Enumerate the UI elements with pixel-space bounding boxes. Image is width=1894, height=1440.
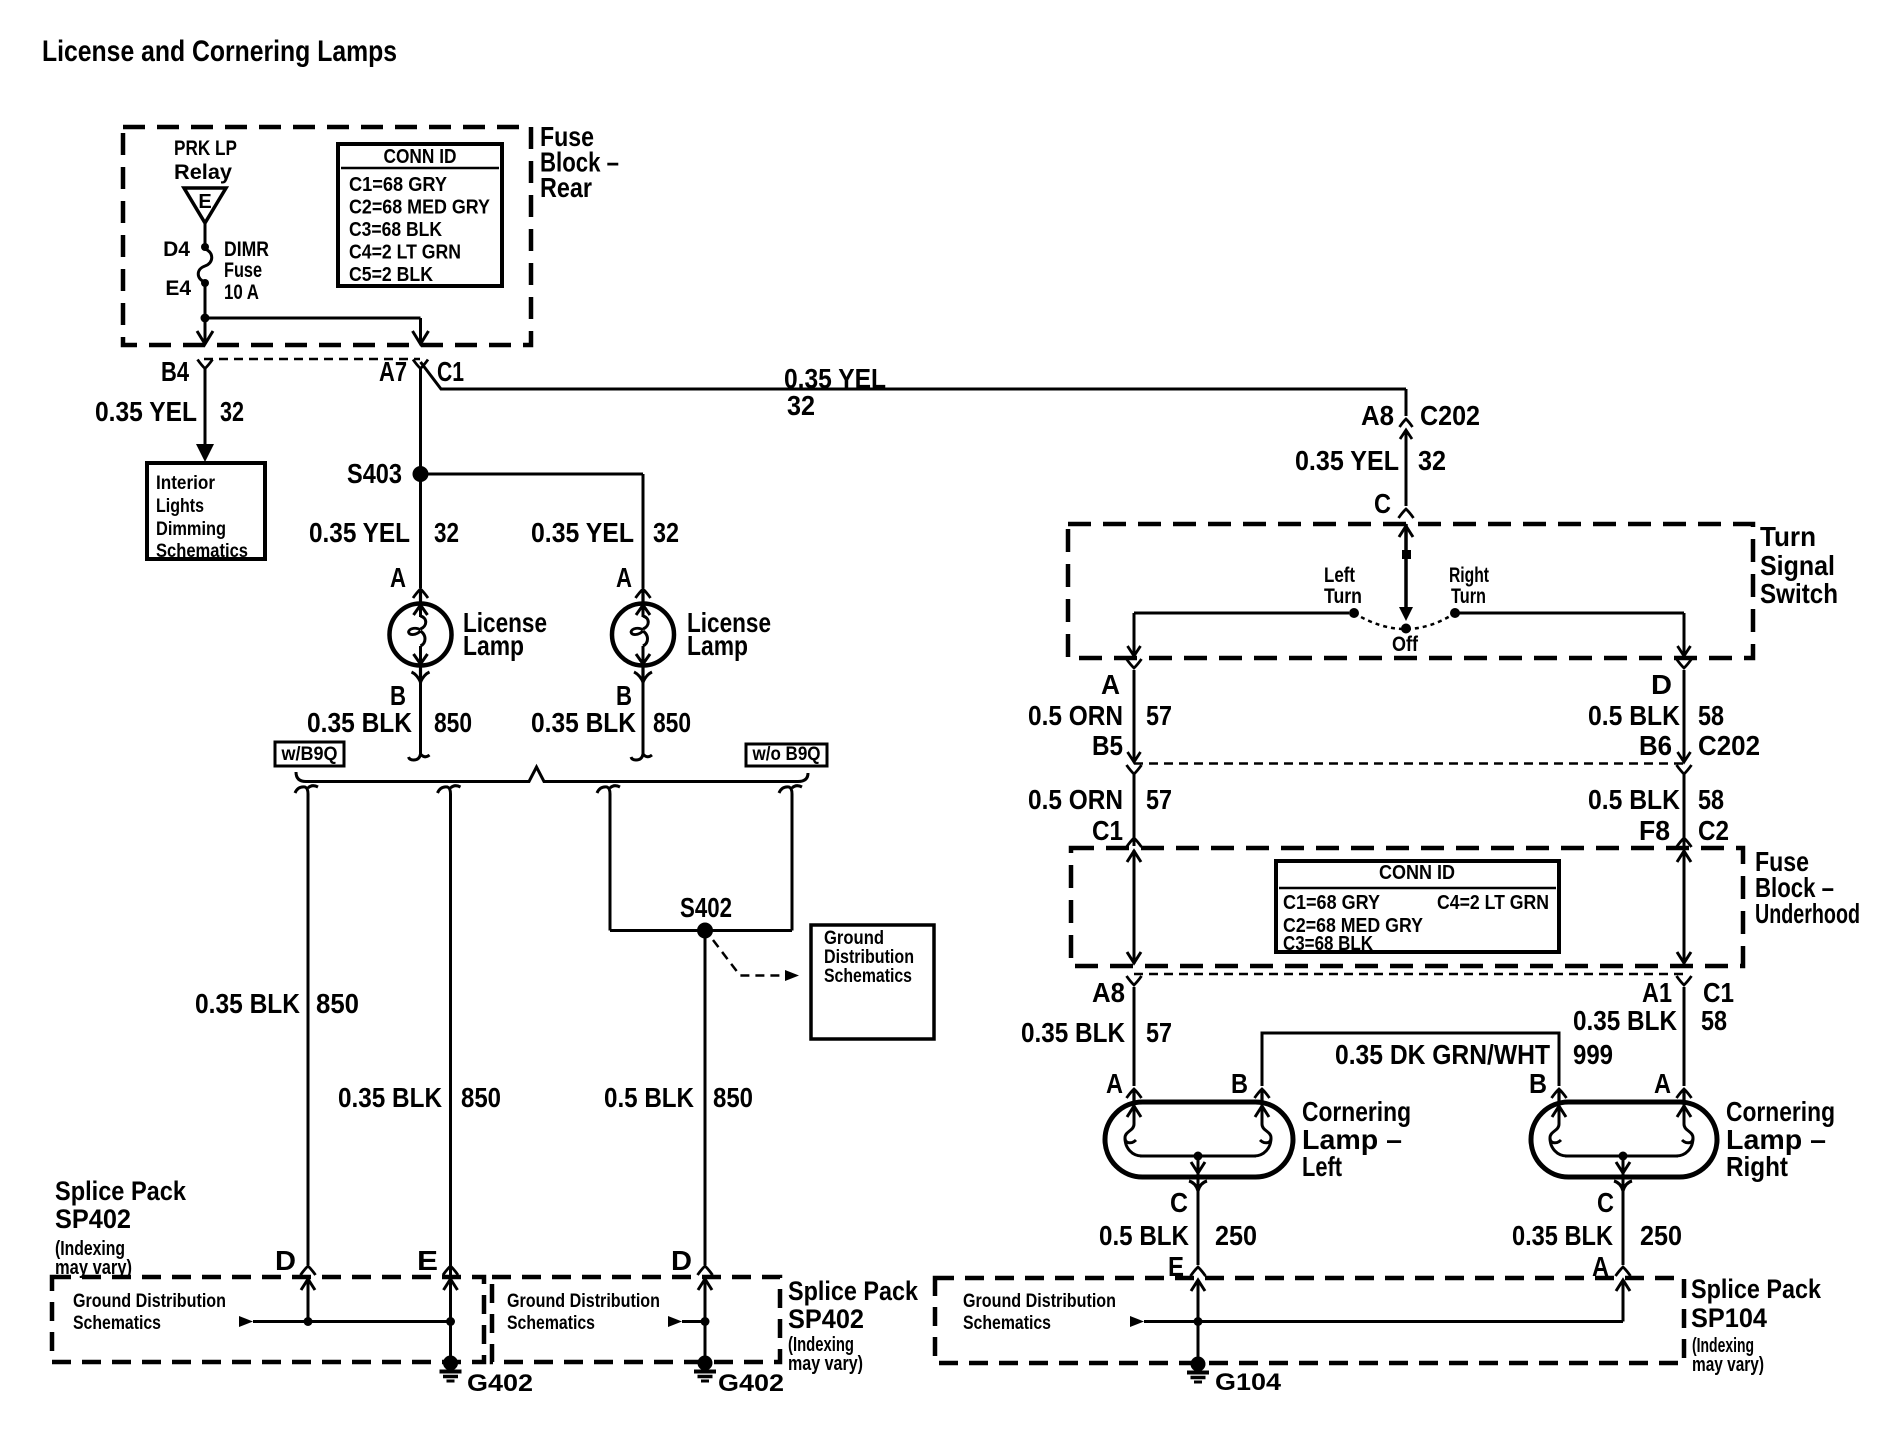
- svg-text:32: 32: [653, 517, 679, 548]
- svg-text:0.35 YEL: 0.35 YEL: [1295, 445, 1399, 476]
- svg-text:E: E: [198, 191, 211, 213]
- svg-text:Right: Right: [1726, 1151, 1788, 1182]
- svg-text:C1: C1: [1703, 977, 1734, 1008]
- svg-text:C2=68 MED GRY: C2=68 MED GRY: [349, 197, 491, 219]
- svg-text:DIMR: DIMR: [224, 238, 269, 261]
- svg-text:Left: Left: [1302, 1151, 1342, 1182]
- svg-text:A: A: [1106, 1068, 1123, 1099]
- svg-text:Schematics: Schematics: [156, 541, 248, 562]
- svg-text:Cornering: Cornering: [1302, 1096, 1411, 1127]
- svg-text:850: 850: [713, 1082, 753, 1113]
- svg-text:0.5 BLK: 0.5 BLK: [1099, 1220, 1189, 1251]
- svg-text:0.35 YEL: 0.35 YEL: [531, 517, 634, 548]
- svg-text:0.35 BLK: 0.35 BLK: [338, 1082, 442, 1113]
- svg-text:A: A: [616, 562, 632, 593]
- svg-text:0.5 ORN: 0.5 ORN: [1028, 784, 1123, 815]
- svg-text:0.35 DK GRN/WHT: 0.35 DK GRN/WHT: [1335, 1039, 1550, 1070]
- svg-text:57: 57: [1146, 784, 1172, 815]
- svg-text:Ground Distribution: Ground Distribution: [963, 1291, 1116, 1312]
- svg-text:E4: E4: [165, 277, 191, 300]
- svg-text:C3=68 BLK: C3=68 BLK: [349, 219, 442, 241]
- svg-text:Lamp: Lamp: [687, 630, 748, 661]
- svg-text:C1=68 GRY: C1=68 GRY: [349, 174, 448, 196]
- svg-text:850: 850: [653, 707, 691, 738]
- svg-text:Underhood: Underhood: [1755, 898, 1860, 929]
- svg-text:C4=2 LT GRN: C4=2 LT GRN: [1437, 892, 1549, 914]
- svg-text:may vary): may vary): [788, 1353, 863, 1375]
- svg-text:0.35 BLK: 0.35 BLK: [1573, 1005, 1677, 1036]
- svg-text:Turn: Turn: [1324, 585, 1362, 608]
- svg-text:Rear: Rear: [540, 172, 592, 203]
- svg-text:CONN ID: CONN ID: [1379, 862, 1455, 884]
- svg-text:850: 850: [434, 707, 472, 738]
- svg-text:G104: G104: [1215, 1369, 1282, 1396]
- svg-text:Switch: Switch: [1760, 578, 1838, 609]
- svg-text:Ground: Ground: [824, 928, 884, 949]
- svg-text:C202: C202: [1698, 730, 1760, 761]
- svg-text:C202: C202: [1420, 400, 1480, 431]
- svg-text:C: C: [1374, 488, 1391, 519]
- svg-text:C2: C2: [1698, 815, 1729, 846]
- svg-text:250: 250: [1215, 1220, 1257, 1251]
- svg-text:F8: F8: [1639, 815, 1670, 846]
- svg-text:A1: A1: [1642, 977, 1672, 1008]
- svg-text:C1: C1: [1092, 815, 1123, 846]
- svg-text:Turn: Turn: [1760, 521, 1816, 552]
- svg-text:Left: Left: [1324, 564, 1355, 587]
- svg-text:C1: C1: [437, 356, 464, 387]
- svg-text:Off: Off: [1392, 633, 1419, 656]
- svg-text:250: 250: [1640, 1220, 1682, 1251]
- svg-text:Splice Pack: Splice Pack: [788, 1276, 919, 1306]
- svg-text:Turn: Turn: [1451, 585, 1486, 608]
- svg-text:Dimming: Dimming: [156, 519, 226, 540]
- svg-text:57: 57: [1146, 700, 1172, 731]
- svg-text:10 A: 10 A: [224, 281, 259, 304]
- svg-text:Lights: Lights: [156, 496, 204, 517]
- svg-text:Schematics: Schematics: [963, 1313, 1051, 1334]
- svg-text:A: A: [1654, 1068, 1671, 1099]
- svg-text:PRK LP: PRK LP: [174, 137, 237, 160]
- svg-text:0.35 BLK: 0.35 BLK: [531, 707, 636, 738]
- svg-text:CONN ID: CONN ID: [384, 146, 457, 168]
- svg-text:A7: A7: [379, 356, 407, 387]
- svg-text:32: 32: [434, 517, 459, 548]
- svg-text:850: 850: [316, 988, 359, 1019]
- svg-text:A8: A8: [1361, 400, 1394, 431]
- svg-text:C3=68 BLK: C3=68 BLK: [1283, 933, 1373, 955]
- svg-text:C: C: [1597, 1187, 1614, 1218]
- svg-text:B5: B5: [1092, 730, 1123, 761]
- svg-text:Schematics: Schematics: [824, 966, 912, 987]
- svg-text:License and Cornering Lamps: License and Cornering Lamps: [42, 35, 397, 68]
- svg-text:Signal: Signal: [1760, 550, 1835, 581]
- svg-text:E: E: [417, 1245, 438, 1276]
- svg-text:0.5 BLK: 0.5 BLK: [1588, 784, 1680, 815]
- svg-text:999: 999: [1573, 1039, 1613, 1070]
- svg-text:Interior: Interior: [156, 473, 216, 494]
- svg-text:0.5 ORN: 0.5 ORN: [1028, 700, 1123, 731]
- svg-text:Cornering: Cornering: [1726, 1096, 1835, 1127]
- svg-text:G402: G402: [718, 1370, 784, 1397]
- svg-text:B: B: [1529, 1068, 1547, 1099]
- svg-text:32: 32: [787, 390, 815, 421]
- svg-text:Ground Distribution: Ground Distribution: [507, 1291, 660, 1312]
- svg-text:0.35 BLK: 0.35 BLK: [1512, 1220, 1613, 1251]
- svg-text:0.35 BLK: 0.35 BLK: [1021, 1017, 1125, 1048]
- svg-text:SP402: SP402: [55, 1204, 131, 1234]
- svg-text:C4=2 LT GRN: C4=2 LT GRN: [349, 242, 461, 264]
- svg-text:w/B9Q: w/B9Q: [281, 744, 338, 765]
- svg-text:0.5 BLK: 0.5 BLK: [1588, 700, 1680, 731]
- svg-text:A8: A8: [1092, 977, 1125, 1008]
- svg-text:850: 850: [461, 1082, 501, 1113]
- svg-text:S402: S402: [680, 892, 732, 923]
- svg-text:0.35 BLK: 0.35 BLK: [195, 988, 300, 1019]
- svg-text:D: D: [275, 1245, 296, 1276]
- svg-text:32: 32: [1418, 445, 1446, 476]
- svg-text:Ground Distribution: Ground Distribution: [73, 1291, 226, 1312]
- svg-text:Fuse: Fuse: [224, 259, 262, 282]
- svg-text:58: 58: [1701, 1005, 1727, 1036]
- svg-text:32: 32: [220, 396, 244, 427]
- svg-text:Schematics: Schematics: [73, 1313, 161, 1334]
- svg-text:B6: B6: [1639, 730, 1672, 761]
- svg-text:0.35 BLK: 0.35 BLK: [307, 707, 412, 738]
- svg-text:SP104: SP104: [1691, 1303, 1767, 1333]
- svg-text:S403: S403: [347, 458, 402, 489]
- svg-text:Distribution: Distribution: [824, 947, 914, 968]
- svg-text:C1=68 GRY: C1=68 GRY: [1283, 892, 1381, 914]
- svg-text:0.35 YEL: 0.35 YEL: [95, 396, 197, 427]
- svg-text:Lamp: Lamp: [463, 630, 524, 661]
- svg-text:G402: G402: [467, 1370, 533, 1397]
- svg-text:57: 57: [1146, 1017, 1172, 1048]
- svg-text:C: C: [1170, 1187, 1188, 1218]
- svg-text:0.5 BLK: 0.5 BLK: [604, 1082, 694, 1113]
- svg-text:C5=2 BLK: C5=2 BLK: [349, 264, 433, 286]
- svg-text:D4: D4: [163, 238, 190, 261]
- svg-text:w/o B9Q: w/o B9Q: [752, 744, 821, 765]
- svg-text:B: B: [1231, 1068, 1248, 1099]
- svg-text:Schematics: Schematics: [507, 1313, 595, 1334]
- svg-text:D: D: [1651, 669, 1672, 700]
- svg-text:Splice Pack: Splice Pack: [55, 1176, 187, 1206]
- svg-text:A: A: [390, 562, 406, 593]
- svg-text:58: 58: [1698, 784, 1724, 815]
- svg-text:A: A: [1101, 669, 1120, 700]
- svg-text:B4: B4: [161, 356, 189, 387]
- svg-text:Splice Pack: Splice Pack: [1691, 1274, 1822, 1304]
- svg-text:58: 58: [1698, 700, 1724, 731]
- svg-text:D: D: [671, 1245, 692, 1276]
- svg-text:Relay: Relay: [174, 161, 232, 184]
- svg-text:SP402: SP402: [788, 1304, 864, 1334]
- svg-text:0.35 YEL: 0.35 YEL: [309, 517, 410, 548]
- svg-text:Right: Right: [1449, 564, 1489, 587]
- svg-text:may vary): may vary): [1692, 1354, 1764, 1376]
